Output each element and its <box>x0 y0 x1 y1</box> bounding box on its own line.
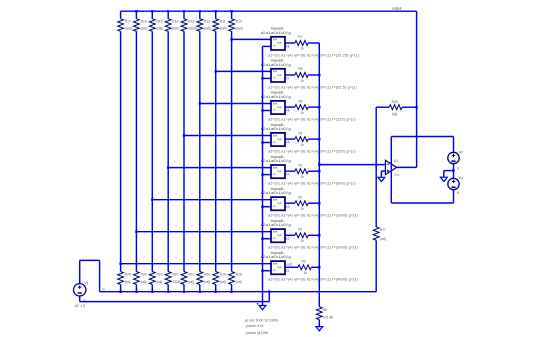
wire op-amp output <box>397 166 417 168</box>
voltage source V1 <box>74 284 86 296</box>
svg-text:X2: X2 <box>286 237 290 241</box>
junction in-line <box>183 291 185 293</box>
resistor R17 (top bank col 1) <box>118 19 124 32</box>
resistor R16 (top bank col 2) <box>134 19 140 32</box>
svg-text:{ral}: {ral} <box>157 280 164 284</box>
svg-text:R5: R5 <box>298 99 302 103</box>
svg-text:R14: R14 <box>172 20 178 24</box>
voltage source V2 <box>448 152 459 163</box>
wire R27 lower lead <box>375 240 377 292</box>
svg-text:a2=(0) a1=(4) a0=(0) b1=(4) b0: a2=(0) a1=(4) a0=(0) b1=(4) b0=(1) f=(31… <box>268 53 359 57</box>
svg-text:{rah}: {rah} <box>220 27 228 31</box>
junction supply midpoint <box>452 169 454 171</box>
junction in-line <box>135 291 137 293</box>
wire output vertical drop <box>416 11 418 167</box>
wire ladder column 5 <box>183 11 185 19</box>
svg-text:U1: U1 <box>394 159 398 163</box>
wire to summing bus row 6 <box>308 202 319 204</box>
wire block lower pin row 2 <box>263 77 272 79</box>
svg-text:AoL: AoL <box>394 172 400 176</box>
junction summing bus row 5 <box>318 170 320 172</box>
junction R26/R27 branch <box>375 163 377 165</box>
svg-text:{rah}: {rah} <box>157 27 165 31</box>
resistor R18 (bottom bank col 8) <box>229 272 235 285</box>
svg-text:{ral}: {ral} <box>125 280 132 284</box>
svg-text:R17: R17 <box>125 20 131 24</box>
svg-text:R10: R10 <box>236 20 242 24</box>
svg-text:biquad1: biquad1 <box>271 187 284 191</box>
wire V1 bottom lead <box>79 296 81 302</box>
svg-text:R12: R12 <box>204 20 210 24</box>
svg-text:output: output <box>392 7 401 11</box>
svg-text:in: in <box>273 236 276 240</box>
svg-text:{ral}: {ral} <box>141 280 148 284</box>
ground flag supply midpoint <box>440 177 447 181</box>
wire to summing bus row 7 <box>308 234 319 236</box>
junction bus row 6 <box>261 206 263 208</box>
svg-text:R24: R24 <box>141 273 147 277</box>
svg-text:R2: R2 <box>298 195 302 199</box>
resistor R24 (bottom bank col 2) <box>134 272 140 285</box>
junction top rail <box>183 10 185 12</box>
svg-text:in: in <box>273 140 276 144</box>
junction tap row 3 <box>199 102 201 104</box>
svg-text:1k: 1k <box>300 79 304 83</box>
node output : top rail wire <box>121 10 417 12</box>
svg-text:.param rg 100k: .param rg 100k <box>245 331 268 335</box>
svg-text:a2=(0) a1=(4) a0=(0) b1=(4) b0: a2=(0) a1=(4) a0=(0) b1=(4) b0=(1) f=(62… <box>268 85 357 89</box>
wire ladder column 7 <box>215 11 217 19</box>
resistor R12 (top bank col 6) <box>197 19 203 32</box>
svg-text:R16: R16 <box>141 20 147 24</box>
wire ladder column 6 <box>199 11 201 19</box>
svg-text:R23: R23 <box>157 273 163 277</box>
svg-text:R3: R3 <box>298 163 302 167</box>
svg-text:X1: X1 <box>286 269 290 273</box>
svg-text:R7: R7 <box>298 35 302 39</box>
svg-text:1k: 1k <box>300 207 304 211</box>
wire 0-rail riser <box>268 292 270 302</box>
svg-text:out: out <box>277 233 281 237</box>
junction tap row 4 <box>183 134 185 136</box>
wire tap row 5 <box>168 167 271 169</box>
wire negative supply rail <box>391 202 453 204</box>
biquad block X8 row 1 <box>271 37 285 50</box>
junction in-line <box>199 291 201 293</box>
resistor R22 (bottom bank col 4) <box>165 272 171 285</box>
svg-text:R20: R20 <box>204 273 210 277</box>
junction bus row 5 <box>261 173 263 175</box>
wire tap row 1 <box>232 38 271 40</box>
resistor R2 row 6 <box>295 201 308 206</box>
wire block output row 8 <box>285 266 298 268</box>
resistor R23 (bottom bank col 3) <box>149 272 155 285</box>
wire op-amp V+ pin (drawn across symbol like LTspice) <box>390 137 392 175</box>
svg-text:AC 1.0: AC 1.0 <box>75 304 85 308</box>
svg-text:.ac dec 1000 10 10000: .ac dec 1000 10 10000 <box>244 318 279 322</box>
resistor R11 (top bank col 7) <box>213 19 219 32</box>
wire to summing bus row 5 <box>308 170 319 172</box>
svg-text:a2,a1,a0,b1,b0,f,g: a2,a1,a0,b1,b0,f,g <box>261 95 291 99</box>
svg-text:out: out <box>277 169 281 173</box>
wire tap row 3 <box>200 103 271 105</box>
biquad block X4 row 5 <box>271 165 285 178</box>
junction summing bus row 4 <box>318 138 320 140</box>
resistor R10 (top bank col 8) <box>229 19 235 32</box>
junction top rail <box>167 10 169 12</box>
svg-text:out: out <box>277 201 281 205</box>
svg-text:a2=(0) a1=(4) a0=(0) b1=(4) b0: a2=(0) a1=(4) a0=(0) b1=(4) b0=(1) f=(40… <box>268 278 358 282</box>
svg-text:R25: R25 <box>125 273 131 277</box>
svg-text:a2,a1,a0,b1,b0,f,g: a2,a1,a0,b1,b0,f,g <box>261 255 291 259</box>
wire block output row 1 <box>285 42 295 44</box>
junction summing bus row 8 <box>318 266 320 268</box>
wire tap row 4 <box>184 135 271 137</box>
svg-text:{rah}: {rah} <box>125 27 133 31</box>
wire ladder column 3 <box>151 11 153 19</box>
svg-text:out1: out1 <box>287 263 293 267</box>
wire block output row 7 <box>285 234 295 236</box>
wire block lower pin row 4 <box>263 142 272 144</box>
svg-text:R15: R15 <box>157 20 163 24</box>
svg-text:in: in <box>273 172 276 176</box>
wire block lower pin row 8 <box>263 270 272 272</box>
wire V2 to midpoint <box>453 164 455 171</box>
svg-text:1k: 1k <box>300 111 304 115</box>
resistor R21 (bottom bank col 5) <box>181 272 187 285</box>
svg-text:{rah}: {rah} <box>204 27 212 31</box>
svg-text:{ral}: {ral} <box>236 280 243 284</box>
svg-text:{rg}: {rg} <box>392 112 398 116</box>
junction tap row 2 <box>215 70 217 72</box>
wire V3 to negative rail <box>453 190 455 203</box>
wire block output row 5 <box>285 170 295 172</box>
junction in-line <box>230 291 232 293</box>
resistor R7 row 1 <box>295 41 308 46</box>
biquad block X5 row 4 <box>271 133 285 146</box>
svg-text:1k: 1k <box>300 239 304 243</box>
svg-text:in: in <box>273 268 276 272</box>
svg-text:{rah}: {rah} <box>236 27 244 31</box>
resistor R15 (top bank col 3) <box>149 19 155 32</box>
resistor R19 (bottom bank col 7) <box>213 272 219 285</box>
junction top rail <box>215 10 217 12</box>
junction in-line <box>119 291 121 293</box>
svg-text:in: in <box>273 76 276 80</box>
junction top rail <box>151 10 153 12</box>
junction summing bus row 3 <box>318 106 320 108</box>
junction top rail <box>199 10 201 12</box>
svg-text:R4: R4 <box>298 131 302 135</box>
node 0 : wire from V1 minus <box>80 301 270 303</box>
resistor R8 <box>316 307 322 320</box>
svg-text:X6: X6 <box>286 109 290 113</box>
svg-text:R0: R0 <box>301 260 305 264</box>
wire block output row 2 <box>285 74 295 76</box>
resistor R27 <box>373 227 379 240</box>
wire to summing bus row 3 <box>308 106 319 108</box>
svg-text:1k: 1k <box>304 271 308 275</box>
svg-text:X5: X5 <box>286 141 290 145</box>
resistor R25 (bottom bank col 1) <box>118 272 124 285</box>
junction bus row 7 <box>261 238 263 240</box>
wire block output row 4 <box>285 138 295 140</box>
wire tap row 2 <box>216 70 271 72</box>
wire summing node to op-amp inverting input <box>319 164 385 166</box>
wire block lower pin row 3 <box>263 110 272 112</box>
svg-text:in: in <box>102 288 105 292</box>
svg-text:.param rl 1k: .param rl 1k <box>245 324 263 328</box>
resistor R1 row 7 <box>295 233 308 238</box>
voltage source V3 <box>448 178 459 189</box>
svg-text:a2=(0) a1=(4) a0=(0) b1=(4) b0: a2=(0) a1=(4) a0=(0) b1=(4) b0=(1) f=(20… <box>268 246 358 250</box>
svg-text:a2,a1,a0,b1,b0,f,g: a2,a1,a0,b1,b0,f,g <box>261 63 291 67</box>
svg-text:X3: X3 <box>286 205 290 209</box>
svg-text:1k: 1k <box>300 143 304 147</box>
wire op-amp + input to ground <box>381 170 385 172</box>
wire block lower pin row 5 <box>263 174 272 176</box>
junction in-line <box>167 291 169 293</box>
biquad block X7 row 2 <box>271 69 285 82</box>
ground flag below R8 <box>316 327 323 331</box>
wire V1 top lead <box>79 260 81 283</box>
wire ladder column 2 <box>135 11 137 19</box>
svg-text:R11: R11 <box>220 20 226 24</box>
junction in-line <box>151 291 153 293</box>
junction summing bus to op-amp line <box>318 163 320 165</box>
wire bus to blocks lower pins <box>262 46 264 305</box>
wire ladder column 8 <box>231 11 233 19</box>
svg-text:in: in <box>273 44 276 48</box>
svg-text:33000: 33000 <box>188 27 197 31</box>
svg-text:out: out <box>277 137 281 141</box>
resistor R5 row 3 <box>295 105 308 110</box>
svg-text:R21: R21 <box>188 273 194 277</box>
resistor R6 row 2 <box>295 73 308 78</box>
wire R8 to ground <box>318 320 320 327</box>
wire R27 upper lead <box>375 165 377 227</box>
svg-text:R8: R8 <box>323 308 327 312</box>
svg-text:out: out <box>277 73 281 77</box>
biquad block X3 row 6 <box>271 197 285 210</box>
svg-text:{rah}: {rah} <box>172 27 180 31</box>
wire R26 left branch <box>375 107 377 164</box>
svg-text:a2=(0) a1=(4) a0=(0) b1=(4) b0: a2=(0) a1=(4) a0=(0) b1=(4) b0=(1) f=(25… <box>268 149 356 153</box>
wire block lower pin row 7 <box>263 238 272 240</box>
svg-text:a2,a1,a0,b1,b0,f,g: a2,a1,a0,b1,b0,f,g <box>261 223 291 227</box>
biquad block X6 row 3 <box>271 101 285 114</box>
svg-text:a2=(0) a1=(4) a0=(0) b1=(4) b0: a2=(0) a1=(4) a0=(0) b1=(4) b0=(1) f=(50… <box>268 182 356 186</box>
wire op-amp V- pin <box>390 174 392 203</box>
wire positive supply rail <box>391 136 453 138</box>
wire supply midpoint to ground <box>444 170 454 172</box>
resistor R26 <box>389 105 402 110</box>
wire ladder column 1 <box>120 11 122 19</box>
wire to summing bus row 8 <box>311 266 319 268</box>
svg-text:R13: R13 <box>188 20 194 24</box>
svg-text:R6: R6 <box>298 67 302 71</box>
svg-text:8: 8 <box>457 191 459 195</box>
svg-text:{ral}: {ral} <box>220 280 227 284</box>
op-amp U1 <box>385 160 396 174</box>
svg-text:{ral}: {ral} <box>204 280 211 284</box>
resistor R20 (bottom bank col 6) <box>197 272 203 285</box>
junction 0-rail riser to in-line <box>268 291 270 293</box>
junction summing bus row 2 <box>318 74 320 76</box>
svg-text:R27: R27 <box>380 228 386 232</box>
wire tap row 7 <box>136 231 271 233</box>
svg-text:R26: R26 <box>392 100 398 104</box>
svg-text:142.88: 142.88 <box>323 316 333 320</box>
svg-text:X7: X7 <box>286 77 290 81</box>
svg-text:R1: R1 <box>298 228 302 232</box>
node in : wire <box>100 291 377 293</box>
junction top rail <box>230 10 232 12</box>
svg-text:in: in <box>273 204 276 208</box>
svg-text:R19: R19 <box>220 273 226 277</box>
svg-text:V2: V2 <box>459 151 463 155</box>
wire summing bus <box>318 43 320 307</box>
junction summing bus row 6 <box>318 202 320 204</box>
svg-text:X4: X4 <box>286 173 290 177</box>
junction in-line <box>215 291 217 293</box>
svg-text:out: out <box>277 105 281 109</box>
svg-text:1k: 1k <box>300 47 304 51</box>
resistor R14 (top bank col 4) <box>165 19 171 32</box>
junction bus row 2 <box>261 77 263 79</box>
svg-text:V3: V3 <box>459 177 463 181</box>
junction R26 to output <box>415 106 417 108</box>
svg-text:{ral}: {ral} <box>380 237 387 241</box>
svg-text:X8: X8 <box>286 45 290 49</box>
wire to summing bus row 1 <box>308 42 319 44</box>
svg-text:a2,a1,a0,b1,b0,f,g: a2,a1,a0,b1,b0,f,g <box>261 191 291 195</box>
ground flag of block bus <box>259 306 266 310</box>
wire block lower pin row 1 <box>263 45 272 47</box>
svg-text:8: 8 <box>457 167 459 171</box>
junction bus row 8 <box>261 270 263 272</box>
svg-text:out: out <box>277 41 281 45</box>
junction tap row 6 <box>151 199 153 201</box>
ground flag op-amp + input <box>378 177 385 181</box>
svg-text:a2,a1,a0,b1,b0,f,g: a2,a1,a0,b1,b0,f,g <box>261 31 291 35</box>
junction bus row 4 <box>261 141 263 143</box>
biquad block X2 row 7 <box>271 229 285 242</box>
svg-text:a2,a1,a0,b1,b0,f,g: a2,a1,a0,b1,b0,f,g <box>261 159 291 163</box>
svg-text:out: out <box>277 265 281 269</box>
resistor R0 row 8 <box>298 265 311 270</box>
junction tap row 5 <box>167 166 169 168</box>
svg-text:in: in <box>273 108 276 112</box>
junction tap row 1 <box>230 38 232 40</box>
svg-text:a2=(0) a1=(4) a0=(0) b1=(4) b0: a2=(0) a1=(4) a0=(0) b1=(4) b0=(1) f=(12… <box>268 117 356 121</box>
wire block output row 3 <box>285 106 295 108</box>
wire to summing bus row 4 <box>308 138 319 140</box>
svg-text:{rah}: {rah} <box>141 27 149 31</box>
svg-text:{ral}: {ral} <box>188 280 195 284</box>
biquad block X1 row 8 <box>271 261 285 274</box>
wire tap row 6 <box>152 199 271 201</box>
resistor R4 row 4 <box>295 137 308 142</box>
wire block output row 6 <box>285 202 295 204</box>
svg-text:a2=(0) a1=(4) a0=(0) b1=(4) b0: a2=(0) a1=(4) a0=(0) b1=(4) b0=(1) f=(10… <box>268 214 358 218</box>
junction tap row 8 <box>119 263 121 265</box>
resistor R3 row 5 <box>295 169 308 174</box>
wire R26 right lead <box>402 106 417 108</box>
svg-text:V1: V1 <box>84 281 88 285</box>
junction tap row 7 <box>135 231 137 233</box>
svg-text:a2,a1,a0,b1,b0,f,g: a2,a1,a0,b1,b0,f,g <box>261 127 291 131</box>
wire to summing bus row 2 <box>308 74 319 76</box>
junction top rail <box>135 10 137 12</box>
wire block lower pin row 6 <box>263 206 272 208</box>
svg-text:1k: 1k <box>300 175 304 179</box>
wire midpoint to V3 <box>453 171 455 179</box>
resistor R13 (top bank col 5) <box>181 19 187 32</box>
junction bus row 3 <box>261 109 263 111</box>
wire tap row 8 <box>121 263 271 265</box>
junction summing bus row 7 <box>318 234 320 236</box>
wire ladder column 4 <box>167 11 169 19</box>
svg-text:R22: R22 <box>172 273 178 277</box>
svg-text:R18: R18 <box>236 273 242 277</box>
